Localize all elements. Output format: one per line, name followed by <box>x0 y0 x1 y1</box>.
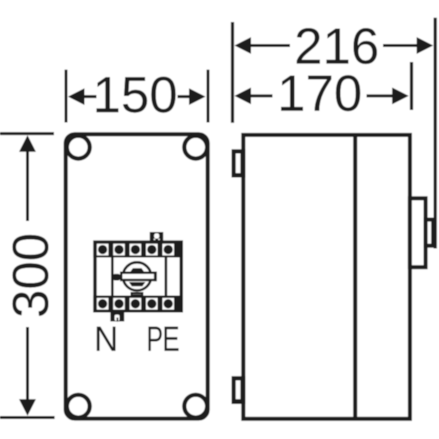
dim 216 extension line right <box>434 18 437 249</box>
top terminal squares <box>97 244 174 256</box>
bottom terminal squares <box>97 298 174 310</box>
dim 150 extension line left <box>65 70 68 123</box>
switch top mounting tab <box>150 232 163 242</box>
wall lug top <box>232 149 246 177</box>
label PE (E) <box>164 327 178 351</box>
dim 150 text <box>96 77 175 113</box>
dim 300 text <box>12 235 48 316</box>
corner hole top-left <box>67 136 90 159</box>
corner hole bottom-right <box>184 395 207 418</box>
rotary handle <box>113 262 157 295</box>
dim 300 bottom extension line <box>0 416 55 419</box>
dim 150 extension line right <box>207 70 210 123</box>
dim 170 text <box>281 75 360 111</box>
switch module inner side lines <box>111 257 114 298</box>
dim 170 extension line right <box>410 62 413 110</box>
handle protrusion outer <box>410 198 426 267</box>
front view enclosure outline <box>66 134 208 418</box>
corner hole top-right <box>184 136 207 159</box>
side view cover divider <box>353 135 357 419</box>
switch body <box>93 241 182 313</box>
dim 216 left arrow <box>235 37 291 54</box>
dim 170 right arrow <box>367 88 409 105</box>
dim 300 line with arrows <box>19 135 36 416</box>
wall lug bottom <box>232 376 246 404</box>
label PE (P) <box>148 327 161 351</box>
switch bottom mounting tab <box>110 311 124 321</box>
corner hole bottom-left <box>67 395 90 418</box>
side view outline <box>243 135 410 419</box>
dim 216 extension line left <box>231 22 234 123</box>
dim 170 left arrow <box>235 88 273 105</box>
dim 216 right arrow <box>383 37 433 54</box>
dim 150 left arrow <box>68 88 97 105</box>
dim 150 right arrow <box>178 88 206 105</box>
label N <box>97 327 116 351</box>
dim 300 top extension line <box>0 132 54 135</box>
handle protrusion tip <box>426 220 434 246</box>
dim 216 text <box>297 28 377 64</box>
